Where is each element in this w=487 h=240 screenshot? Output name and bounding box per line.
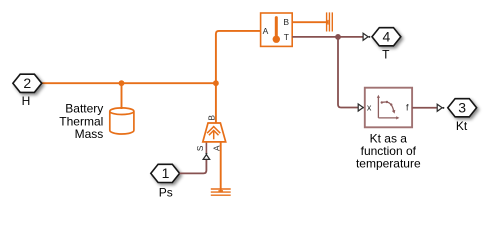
wire T junction down to lookup table input bbox=[338, 37, 358, 108]
lookup icon axes bbox=[378, 97, 397, 118]
svg-text:1: 1 bbox=[162, 165, 170, 181]
wire branch down to thermal mass bbox=[121, 83, 123, 109]
svg-text:A: A bbox=[263, 26, 269, 36]
thermometer stem bbox=[275, 18, 278, 36]
svg-text:B: B bbox=[283, 17, 289, 27]
svg-text:H: H bbox=[22, 94, 31, 108]
svg-text:T: T bbox=[382, 47, 390, 61]
wire junction up to sensor A port bbox=[216, 31, 261, 83]
heat source arrow chevrons bbox=[207, 127, 220, 134]
arrowhead into port 3 bbox=[437, 104, 442, 111]
wire heat source A port down to thermal reference bbox=[220, 142, 222, 192]
port 2 (H) hexagon bbox=[13, 74, 42, 92]
arrowhead into S input (pointing up) bbox=[203, 155, 210, 160]
port 4 (T) hexagon bbox=[372, 28, 401, 46]
lookup table block (Kt as a function of temperature) bbox=[365, 88, 412, 128]
wire H to junctions (main thermal line) bbox=[42, 82, 216, 84]
svg-text:3: 3 bbox=[458, 99, 466, 115]
arrowhead into port 4 bbox=[363, 33, 368, 40]
svg-text:S: S bbox=[196, 145, 205, 151]
wire stub S arrow to heat source bbox=[205, 142, 207, 153]
svg-text:2: 2 bbox=[23, 75, 31, 91]
thermometer bulb bbox=[273, 36, 280, 43]
wire port 1 to heat source S input bbox=[180, 160, 207, 174]
port 3 (Kt) hexagon bbox=[448, 99, 477, 117]
svg-text:T: T bbox=[284, 32, 289, 42]
svg-text:Kt: Kt bbox=[456, 119, 468, 133]
wire lookup f output to port 3 bbox=[412, 107, 437, 109]
svg-text:temperature: temperature bbox=[356, 157, 421, 171]
node junction on T signal bbox=[335, 34, 341, 40]
wire sensor B port to thermal reference bbox=[292, 21, 328, 23]
thermal mass block (cylinder) bbox=[110, 108, 134, 134]
arrowhead into lookup table x input bbox=[358, 104, 363, 111]
node junction at sensor/source branch bbox=[213, 80, 219, 86]
wire junction down to heat source B port bbox=[215, 83, 217, 122]
svg-text:B: B bbox=[207, 114, 216, 120]
heat source block (trapezoid) bbox=[196, 114, 226, 151]
thermal reference (top comb) bbox=[327, 12, 333, 31]
node junction at thermal mass branch bbox=[119, 80, 125, 86]
svg-text:Mass: Mass bbox=[75, 127, 104, 141]
lookup icon curve bbox=[381, 102, 394, 111]
svg-text:4: 4 bbox=[383, 28, 391, 44]
wire sensor T port to port 4 (physical signal) bbox=[292, 36, 363, 38]
svg-text:Ps: Ps bbox=[159, 186, 173, 200]
svg-text:x: x bbox=[367, 103, 372, 113]
port 1 (Ps) hexagon bbox=[151, 164, 180, 182]
thermal reference (bottom comb / ground) bbox=[211, 189, 231, 195]
temperature sensor block bbox=[261, 13, 293, 46]
